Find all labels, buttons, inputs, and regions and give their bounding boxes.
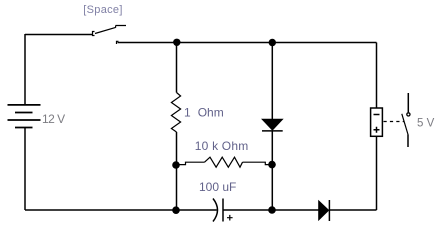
wire: D1 branch upper bbox=[271, 43, 273, 120]
wire: bottom rail right end bbox=[329, 209, 376, 211]
relay coil plus mark bbox=[374, 127, 380, 133]
diode D2 cathode bar bbox=[328, 200, 330, 221]
wire: D1 branch lower bbox=[271, 131, 273, 210]
capacitor C1 plus sign bbox=[227, 215, 233, 221]
switch SW1 right contact bbox=[117, 41, 119, 44]
wire: R1 branch lower bbox=[176, 132, 178, 210]
relay switch top terminal bbox=[407, 93, 409, 112]
resistor R2 10 k Ohm zigzag bbox=[205, 157, 243, 167]
wire: bottom rail left of capacitor bbox=[25, 209, 217, 211]
wire: right vertical lower bbox=[376, 136, 378, 210]
node: top rail / R1 branch bbox=[173, 39, 180, 46]
node: R1 / R2 junction bbox=[172, 161, 180, 169]
node: R2 / D1 junction bbox=[268, 161, 276, 169]
svg-text:Ohm: Ohm bbox=[198, 106, 224, 120]
node: top rail / D1 branch bbox=[269, 39, 276, 46]
dashed control link bbox=[384, 121, 405, 123]
capacitor C1 curved plate bbox=[213, 199, 218, 222]
node: bottom rail / R1 branch bbox=[172, 206, 180, 214]
relay coil L1 box bbox=[371, 108, 383, 136]
svg-text:5 V: 5 V bbox=[417, 118, 435, 130]
wire: left vertical lower bbox=[24, 128, 26, 211]
wire: R2 row left jog bbox=[179, 162, 205, 164]
relay coil minus mark bbox=[374, 114, 380, 116]
relay switch bottom terminal bbox=[407, 135, 409, 148]
node: bottom rail / D1 branch bbox=[268, 206, 276, 214]
svg-text:12 V: 12 V bbox=[42, 112, 65, 126]
capacitor C1 straight plate bbox=[222, 199, 224, 222]
battery B1 12V plates bbox=[8, 104, 41, 106]
wire: left vertical upper (to battery) bbox=[24, 34, 26, 105]
resistor R1 1 Ohm zigzag bbox=[171, 93, 180, 133]
wire: left top horizontal to switch bbox=[25, 34, 92, 36]
wire: top rail bbox=[118, 42, 377, 44]
wire: R1 branch upper bbox=[176, 43, 178, 93]
svg-text:100 uF: 100 uF bbox=[199, 180, 236, 194]
switch SW1 left contact bbox=[93, 32, 95, 36]
diode D2 triangle (points right) bbox=[319, 201, 329, 220]
diode D1 triangle (points down) bbox=[262, 119, 282, 130]
switch SW1 lever (open) with handle bbox=[95, 26, 126, 34]
wire: bottom rail right of capacitor bbox=[223, 209, 319, 211]
diode D1 cathode bar bbox=[262, 130, 283, 132]
wire: R2 row right jog bbox=[243, 162, 270, 164]
relay switch pivot circle bbox=[407, 113, 410, 116]
svg-text:[Space]: [Space] bbox=[83, 4, 122, 16]
relay switch lever (open) bbox=[402, 114, 408, 135]
svg-text:1: 1 bbox=[184, 106, 191, 120]
svg-text:10 k Ohm: 10 k Ohm bbox=[195, 139, 249, 153]
wire: right vertical upper bbox=[376, 43, 378, 109]
